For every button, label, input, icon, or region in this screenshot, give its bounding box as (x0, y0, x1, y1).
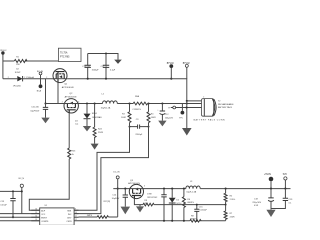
svg-text:10: 10 (75, 212, 77, 214)
capacitor C18 electrolytic output (252, 189, 274, 210)
test point TP5 (179, 104, 184, 120)
svg-text:9: 9 (75, 209, 76, 211)
ground under C14 (121, 207, 131, 215)
svg-text:COMPS: COMPS (41, 221, 49, 223)
svg-text:220R: 220R (230, 216, 235, 218)
test point DC_IN stage2 (113, 171, 120, 217)
capacitor C12 electrolytic (157, 104, 173, 121)
svg-text:C15 220: C15 220 (31, 106, 39, 108)
svg-text:1N5819AS: 1N5819AS (92, 116, 102, 119)
component note box (58, 48, 81, 61)
resistor R8 in ground return (190, 215, 201, 222)
svg-text:R17(R): R17(R) (104, 201, 111, 203)
svg-text:16: 16 (35, 209, 37, 211)
svg-text:BATTERY PACK: BATTERY PACK (218, 106, 233, 109)
junction BC_IN (21, 190, 23, 192)
capacitor C15 2200pF (30, 104, 48, 118)
svg-text:BTV40: BTV40 (167, 63, 175, 65)
junction switch-D4 (86, 102, 88, 104)
ground battery return (182, 128, 192, 136)
IC U1 (31, 205, 78, 225)
junction rail-C1 (87, 78, 89, 80)
capacitor C16 (194, 205, 207, 221)
svg-text:14: 14 (35, 216, 37, 218)
svg-text:1 500mA: 1 500mA (26, 76, 35, 79)
wire bottom ground rail (79, 220, 226, 222)
resistor R7 (224, 205, 235, 221)
junction rail C17 (163, 220, 165, 222)
wire feedback route outer (40, 123, 130, 211)
capacitor C13 (0, 191, 15, 217)
junction C17 tap (163, 188, 165, 190)
svg-text:BCA: BCA (37, 90, 42, 93)
junction DC_IN-stage2 row (117, 188, 119, 190)
svg-text:13: 13 (35, 219, 37, 221)
svg-text:100µ10V: 100µ10V (165, 117, 174, 119)
svg-text:2: 2 (62, 102, 63, 104)
wire switch node row (46, 103, 202, 105)
svg-text:VCC: VCC (41, 214, 46, 216)
junction R5-R7 (225, 204, 227, 206)
svg-text:3: 3 (78, 102, 79, 104)
wire feedback row stage2 (154, 204, 226, 206)
test point BTV40 (167, 63, 175, 79)
svg-text:DRV: DRV (67, 218, 72, 220)
ground under Q3 gate (136, 206, 144, 212)
wire input top row (3, 54, 118, 62)
svg-text:11: 11 (75, 216, 77, 218)
wire rail tap down to switch row (45, 79, 47, 104)
svg-text:2: 2 (8, 77, 9, 79)
junction topline-C2 (105, 53, 107, 55)
label C17 (147, 193, 158, 198)
svg-text:931537142: 931537142 (147, 197, 158, 199)
wire stage2 output row (143, 188, 290, 190)
wire Q1 gate down (57, 83, 59, 104)
svg-text:BATTERY PACK CONN: BATTERY PACK CONN (194, 119, 225, 122)
junction switch-R4 (147, 102, 149, 104)
svg-text:DC_IN: DC_IN (113, 171, 120, 173)
capacitor C1 100uF (82, 54, 99, 79)
svg-text:100R: 100R (121, 117, 126, 119)
svg-text:AP2306GN: AP2306GN (62, 86, 74, 89)
svg-text:+5V0S: +5V0S (264, 174, 271, 176)
svg-text:SCHP: SCHP (15, 72, 21, 74)
label 500mA (26, 76, 35, 79)
svg-text:SC14: SC14 (176, 203, 182, 205)
junction rail D5 (171, 220, 173, 222)
diode D2 (8, 69, 25, 88)
capacitor C14 (112, 189, 128, 207)
wire feedback route inner (74, 123, 148, 214)
arrow net feed down (114, 60, 122, 64)
svg-text:12: 12 (75, 219, 77, 221)
svg-text:0.5R: 0.5R (254, 205, 259, 207)
ground under C18 (266, 210, 275, 217)
junction output C19 (284, 188, 286, 190)
test point +5VOS output (264, 174, 273, 188)
svg-text:BC_N: BC_N (19, 178, 25, 180)
svg-text:T0.75A: T0.75A (60, 51, 68, 54)
test point TP4 (168, 106, 175, 110)
svg-text:680R%: 680R% (187, 202, 194, 204)
resistor R6 (182, 189, 194, 221)
junction output C18 (270, 188, 272, 190)
connector T2 battery pack (194, 97, 235, 122)
junction D5 tap (171, 188, 173, 190)
wire input second row to Q1 (3, 78, 54, 80)
svg-text:Cat: Cat (75, 123, 79, 126)
resistor R9 gate (143, 200, 154, 206)
wire U1 drive row to stage2 (79, 216, 118, 218)
wire main rail to battery (67, 79, 201, 101)
svg-text:D7M: D7M (147, 193, 152, 195)
svg-text:220µ/10V: 220µ/10V (252, 202, 261, 204)
resistor R4 (147, 104, 156, 123)
resistor JMP4 (87, 201, 111, 218)
junction C13 bottom (12, 216, 14, 218)
svg-text:9V-DC: 9V-DC (0, 50, 7, 52)
resistor R5 (224, 189, 235, 205)
svg-text:AP2306GN: AP2306GN (128, 182, 140, 185)
svg-text:0.047µF: 0.047µF (199, 209, 207, 211)
junction switch-R3 (128, 102, 130, 104)
svg-text:2.2k%: 2.2k% (230, 199, 236, 201)
svg-text:R8A: R8A (135, 95, 140, 98)
junction gnd drop (186, 106, 188, 108)
junction rail-BTV (170, 78, 172, 80)
svg-text:C1R0/1%: C1R0/1% (132, 109, 141, 111)
svg-text:1FL4200: 1FL4200 (13, 85, 22, 87)
svg-text:100R: 100R (151, 117, 156, 119)
resistor R1 (14, 56, 27, 66)
svg-text:CSPU: CSPU (66, 221, 72, 223)
junction tap-switch row (44, 102, 46, 104)
svg-text:PTC R65: PTC R65 (60, 56, 70, 58)
svg-text:10µH-1.2A: 10µH-1.2A (101, 106, 111, 109)
junction rail drop to pin1 (186, 100, 188, 102)
svg-text:2200pF: 2200pF (135, 134, 143, 136)
ground under C12 (158, 121, 166, 127)
transistor Q1 (46, 69, 74, 89)
svg-text:10µF/50V: 10µF/50V (30, 110, 39, 112)
junction C14 tap (124, 188, 126, 190)
svg-text:3: 3 (144, 185, 145, 187)
svg-text:C10 220: C10 220 (82, 66, 90, 68)
capacitor C9 (130, 119, 149, 136)
capacitor C2 0.1uF (101, 54, 116, 79)
diode D5 (169, 189, 183, 221)
svg-text:RECHARGEABLE: RECHARGEABLE (218, 103, 234, 106)
transistor Q3 (128, 180, 145, 199)
junction R4-C9 (148, 126, 150, 128)
wire input vertical from J2 (2, 55, 4, 79)
svg-text:1000µF: 1000µF (92, 69, 100, 71)
resistor R24 (93, 104, 104, 144)
junction switch-C12 (161, 102, 163, 104)
diode D4 (75, 104, 102, 127)
svg-text:BTV02: BTV02 (183, 63, 191, 65)
junction rail R6 (183, 220, 185, 222)
wire Q3 gate (134, 199, 143, 207)
transistor Q2 (62, 93, 80, 113)
svg-text:C11 20: C11 20 (101, 66, 108, 68)
connector J2 9V-DC input node (0, 50, 7, 55)
junction C16-feedback row (196, 204, 198, 206)
ground under C15 (41, 118, 49, 124)
svg-text:BC_IN: BC_IN (37, 71, 43, 73)
junction C13 top (12, 190, 14, 192)
junction rail drop crossing (186, 102, 188, 104)
wire battery pin3 row (171, 107, 202, 109)
svg-text:AP2306GN: AP2306GN (65, 96, 77, 99)
wire BC_IN net row (0, 191, 40, 213)
junction rail-C2 (105, 78, 107, 80)
junction R6 tap (183, 188, 185, 190)
svg-text:0.47µF: 0.47µF (0, 205, 7, 207)
capacitor C19 (271, 189, 293, 209)
wire battery ground drop (186, 101, 188, 128)
test point BTV02 (183, 63, 191, 79)
test point BC_IN bottom (19, 178, 25, 191)
svg-text:10µH-1.3A: 10µH-1.3A (186, 191, 196, 194)
svg-text:0.1µF: 0.1µF (110, 69, 116, 71)
wire R23 to U1 pin route (29, 159, 69, 210)
test point BCA (37, 84, 43, 92)
svg-text:EN/SY: EN/SY (41, 218, 48, 220)
resistor R23 (68, 148, 76, 159)
test point BC_IN top (37, 71, 43, 84)
resistor R8A current sense (132, 95, 147, 111)
arrow net to control (91, 144, 99, 150)
ground under D4 (83, 126, 91, 131)
svg-text:10µF/6V: 10µF/6V (112, 198, 120, 200)
wire Q2 gate down to R23 (68, 113, 70, 148)
svg-text:JMP4: JMP4 (87, 215, 93, 217)
test point 5V return (283, 174, 288, 188)
inductor L3 (186, 181, 200, 194)
wire stage2 input row (113, 188, 130, 190)
svg-text:15: 15 (35, 212, 37, 214)
wire bottom row3 left (0, 216, 40, 218)
junction R5 top (225, 188, 227, 190)
capacitor C17 (161, 189, 166, 221)
svg-text:2: 2 (46, 77, 47, 79)
wire bottom row4 left (0, 220, 40, 222)
junction R3-C9 (129, 126, 131, 128)
inductor L2 (101, 93, 118, 109)
svg-text:2: 2 (203, 97, 204, 99)
junction rail C16 (196, 220, 198, 222)
junction switch-R24 (94, 102, 96, 104)
resistor R3 (121, 104, 131, 123)
